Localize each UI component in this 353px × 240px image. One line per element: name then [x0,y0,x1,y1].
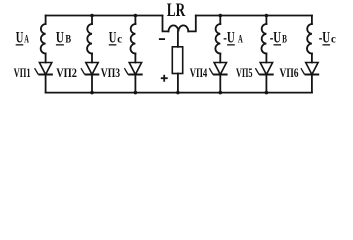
wire center tap [177,31,179,46]
wire branch 4 top [219,16,221,25]
junction node branch5 bottom [265,91,269,95]
junction node branch4 top [219,14,223,18]
VP4 gate [209,68,213,74]
VP3 gate [124,68,128,74]
svg-text:-U: -U [223,29,235,46]
label -UC [319,29,336,46]
wire branch 4 bottom [219,75,221,93]
wire branch 5 mid [265,54,267,63]
svg-text:U: U [56,29,64,46]
wire branch 5 bottom [265,75,267,93]
wire branch 2 bottom [91,75,93,93]
winding -UC [307,24,312,54]
VP6 triangle (anode) [306,63,318,75]
wire branch 6 bottom [311,75,313,93]
wire branch 3 bottom [134,75,136,93]
svg-text:VП2: VП2 [56,65,77,80]
svg-text:U: U [109,29,117,46]
reactor LR right step [188,16,196,32]
label -UB [270,29,287,46]
wire branch 4 mid [219,54,221,63]
VP5 triangle (anode) [260,63,272,75]
wire branch 1 mid [45,54,47,63]
VP5 gate [255,68,259,74]
VP3 cathode bar [128,74,143,76]
wire load to bottom bus [177,74,179,93]
wire bottom bus [46,92,312,94]
VP4 triangle (anode) [214,63,226,75]
svg-text:c: c [331,33,336,45]
thyristor VP4 [209,63,227,75]
winding -UB [261,24,266,54]
label UA [16,29,30,46]
svg-text:A: A [24,33,29,45]
label minus [159,38,165,40]
junction node load bottom [176,91,180,95]
wire branch 6 mid [311,54,313,63]
junction node branch3 bottom [134,91,138,95]
label -UA [223,29,243,46]
reactor LR arcs [169,25,189,31]
wire branch 1 top [45,16,47,25]
VP2 triangle (anode) [86,63,98,75]
wire branch 3 mid [134,54,136,63]
wire branch 6 top [311,16,313,25]
svg-text:VП3: VП3 [101,65,121,80]
junction node branch3 top [134,14,138,18]
junction node branch5 top [265,14,269,18]
wire branch 3 top [134,16,136,25]
thyristor VP6 [301,63,319,75]
svg-text:VП6: VП6 [280,65,299,80]
svg-text:LR: LR [167,0,186,21]
VP2 cathode bar [85,74,100,76]
svg-text:VП4: VП4 [190,65,208,80]
VP3 triangle (anode) [129,63,141,75]
VP1 gate [35,68,39,74]
VP5 cathode bar [259,74,274,76]
label plus [161,75,168,82]
svg-text:B: B [65,33,71,45]
winding UA [41,24,46,54]
thyristor VP3 [124,63,142,75]
svg-text:c: c [117,33,122,45]
reactor LR left step [163,16,169,32]
svg-text:VП5: VП5 [236,65,253,80]
label UC [109,29,122,46]
svg-text:-U: -U [270,29,282,46]
svg-text:A: A [238,33,243,45]
junction node branch2 top [90,14,94,18]
thyristor VP5 [255,63,273,75]
junction node branch4 bottom [219,91,223,95]
winding UC [130,24,135,54]
junction node branch2 bottom [90,91,94,95]
VP6 cathode bar [305,74,320,76]
thyristor VP1 [35,63,53,75]
resistor R load [172,47,182,74]
wire top bus right [196,15,312,17]
VP4 cathode bar [213,74,228,76]
wire branch 2 mid [91,54,93,63]
svg-text:VП1: VП1 [14,65,31,80]
VP1 triangle (anode) [39,63,51,75]
wire branch 1 bottom [45,75,47,93]
svg-text:U: U [16,29,24,46]
winding UB [87,24,92,54]
label UB [56,29,71,46]
wire branch 2 top [91,16,93,25]
winding -UA [215,24,220,54]
wire top bus left [46,15,163,17]
svg-text:-U: -U [319,29,331,46]
VP1 cathode bar [38,74,53,76]
thyristor VP2 [81,63,99,75]
wire branch 5 top [265,16,267,25]
VP2 gate [81,68,85,74]
svg-text:B: B [282,33,287,45]
VP6 gate [301,68,305,74]
